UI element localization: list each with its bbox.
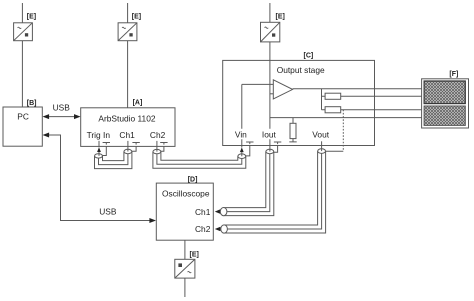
- svg-text:Ch1: Ch1: [195, 207, 211, 217]
- USB link PC-ArbStudio: [43, 114, 81, 119]
- Ch1 shield wire: [132, 146, 136, 151]
- PC box B: [3, 107, 42, 146]
- wire supply E2 to ArbStudio: [127, 3, 129, 108]
- svg-text:Ch2: Ch2: [150, 130, 166, 140]
- resistor R1: [322, 93, 422, 99]
- svg-text:USB: USB: [53, 103, 71, 113]
- Iout BNC tick: [274, 142, 281, 144]
- svg-text:Ch1: Ch1: [119, 130, 135, 140]
- wire op-amp output to F: [293, 88, 422, 90]
- Trig In terminal stub and arrow: [98, 141, 100, 156]
- coax cable Vout to scope Ch2: [221, 149, 326, 233]
- svg-text:Vin: Vin: [235, 129, 247, 139]
- Ch1 BNC tick: [132, 143, 139, 145]
- scope Ch1 input arrow: [215, 209, 221, 214]
- Iout terminal stub: [269, 146, 271, 152]
- svg-text:USB: USB: [99, 207, 117, 217]
- svg-text:[A]: [A]: [133, 100, 143, 107]
- Ch2 BNC tick: [160, 143, 167, 145]
- Trig In shield wire: [102, 146, 106, 155]
- Vin terminal stub and arrow: [241, 146, 243, 156]
- AC/DC adapter E2: [118, 23, 137, 41]
- Ch2 terminal stub: [156, 141, 158, 152]
- op-amp U1: [273, 80, 292, 99]
- svg-text:Vout: Vout: [312, 129, 329, 139]
- USB link PC-Oscilloscope: [43, 133, 157, 224]
- svg-text:[C]: [C]: [304, 52, 314, 59]
- svg-text:PC: PC: [17, 112, 29, 122]
- Iout shield wire: [274, 146, 278, 153]
- AC/DC adapter E1: [14, 23, 33, 41]
- wire supply E1 to PC: [21, 3, 23, 107]
- Output stage box C: [223, 60, 375, 145]
- scope Ch2 input arrow: [215, 227, 221, 232]
- dashed sense wire to Vout: [342, 110, 344, 152]
- svg-text:Trig In: Trig In: [87, 130, 111, 140]
- wire oscilloscope to supply E4: [184, 240, 186, 297]
- coax cable Iout to scope Ch1: [220, 149, 273, 215]
- wire supply E3 to Output stage: [269, 3, 271, 60]
- svg-text:[E]: [E]: [132, 14, 141, 21]
- AC/DC adapter E3: [261, 22, 280, 42]
- Vout terminal stub: [321, 141, 323, 147]
- wire op-amp inverting input stub: [270, 93, 273, 95]
- ArbStudio 1102 box A: [81, 108, 175, 147]
- svg-text:ArbStudio 1102: ArbStudio 1102: [98, 113, 155, 123]
- svg-text:[F]: [F]: [449, 71, 458, 78]
- Vin shield wire: [246, 146, 250, 156]
- Ch2 shield wire: [161, 146, 164, 151]
- svg-text:[E]: [E]: [276, 14, 285, 21]
- device under test F: [422, 79, 469, 128]
- svg-text:[E]: [E]: [27, 14, 36, 21]
- wire feedback node vertical: [321, 89, 323, 110]
- Ch1 terminal stub: [127, 141, 129, 152]
- svg-text:Output stage: Output stage: [277, 65, 325, 75]
- svg-text:Iout: Iout: [262, 129, 277, 139]
- svg-text:[D]: [D]: [188, 177, 198, 184]
- svg-text:[E]: [E]: [190, 252, 199, 259]
- coax cable Ch2 to Vin: [153, 149, 246, 168]
- coax cable Ch1 to Trig In: [95, 149, 132, 168]
- Trig In BNC tick: [103, 143, 110, 145]
- wire bottom rail to F: [270, 117, 422, 119]
- AC/DC adapter E4 (rotated): [175, 259, 195, 278]
- svg-text:[B]: [B]: [27, 100, 37, 107]
- Vin BNC tick: [246, 142, 253, 144]
- resistor R2: [322, 107, 422, 113]
- Vout terminal stub: [321, 147, 323, 151]
- Oscilloscope box D: [156, 183, 213, 240]
- wire op-amp input to Vin: [242, 84, 273, 146]
- svg-text:Oscilloscope: Oscilloscope: [162, 188, 210, 198]
- resistor R3: [289, 118, 296, 142]
- wire supply rail to Iout: [269, 60, 271, 145]
- svg-text:Ch2: Ch2: [195, 224, 211, 234]
